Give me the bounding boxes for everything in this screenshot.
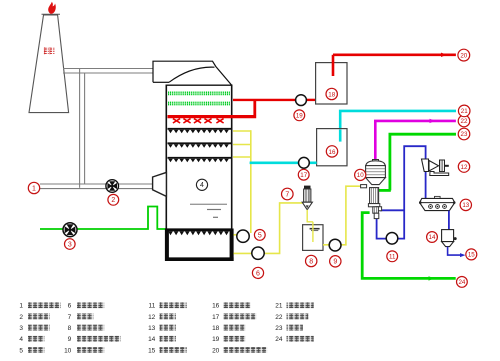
svg-text:7: 7: [68, 314, 72, 321]
legend: [19, 302, 313, 354]
svg-text:6: 6: [68, 303, 72, 310]
svg-text:3: 3: [68, 241, 72, 248]
tower outlet duct and dome: [153, 61, 232, 85]
tray layer 1: [168, 129, 232, 134]
node 8: [306, 255, 317, 266]
wash water pipe to tower: [233, 100, 316, 115]
svg-text:11: 11: [389, 254, 396, 261]
svg-text:10: 10: [64, 347, 72, 354]
fan 2: [106, 180, 119, 193]
steam arrow 22: [430, 119, 436, 123]
absorbent tank 16: [317, 129, 347, 166]
node 5: [254, 230, 265, 241]
product outlet pipe: [448, 247, 463, 256]
node 18: [326, 88, 337, 99]
node 16: [326, 146, 337, 157]
svg-text:24: 24: [458, 279, 465, 286]
svg-text:17: 17: [300, 172, 307, 179]
svg-text:2: 2: [19, 314, 23, 321]
svg-text:22: 22: [275, 314, 283, 321]
dryer 13: [419, 196, 456, 210]
node 20: [458, 49, 470, 61]
clean gas duct: [63, 69, 153, 74]
tower inlet funnel: [153, 172, 167, 196]
tank 16 dip pipe: [339, 129, 342, 141]
tank 18 dip pipe: [332, 55, 335, 76]
raw gas duct: [40, 184, 153, 189]
condensate arrow 24: [429, 276, 435, 280]
absorber tower shell: [166, 85, 233, 229]
buffer tank 8: [303, 225, 323, 251]
svg-text:17: 17: [212, 314, 220, 321]
secondary steam pipe: [375, 121, 456, 160]
product arrow 15: [460, 253, 466, 257]
pump 9: [329, 239, 341, 251]
node 12: [458, 161, 469, 172]
svg-text:1: 1: [19, 303, 23, 310]
svg-text:19: 19: [296, 113, 303, 120]
slurry tap pipes: [233, 130, 251, 235]
bottom tray: [167, 230, 232, 235]
svg-text:20: 20: [212, 347, 220, 354]
chimney: [29, 14, 69, 112]
svg-text:14: 14: [148, 336, 156, 343]
svg-text:3: 3: [19, 325, 23, 332]
absorbent feed pipe: [250, 162, 317, 165]
svg-text:23: 23: [461, 131, 468, 138]
node 17: [298, 169, 309, 180]
svg-text:4: 4: [19, 336, 23, 343]
node 24: [457, 277, 468, 288]
liquid level: [190, 204, 227, 217]
svg-text:14: 14: [429, 234, 436, 241]
filter drain pipe: [307, 210, 313, 222]
node 7: [282, 188, 294, 200]
condensate pipe: [362, 213, 456, 279]
pump 5: [237, 230, 249, 242]
node 13: [460, 199, 471, 210]
svg-text:12: 12: [461, 164, 468, 171]
svg-text:8: 8: [68, 325, 72, 332]
svg-text:7: 7: [285, 191, 289, 198]
svg-text:20: 20: [460, 52, 467, 59]
flame: [48, 2, 56, 14]
svg-text:2: 2: [111, 197, 115, 204]
chimney label text: [44, 47, 55, 54]
process water supply pipe: [333, 53, 456, 56]
svg-text:18: 18: [212, 325, 220, 332]
node 6: [252, 267, 263, 278]
slurry pipe to pump 11: [377, 146, 426, 238]
bypass duct: [80, 69, 85, 188]
svg-text:12: 12: [148, 314, 156, 321]
svg-text:15: 15: [468, 252, 475, 259]
pump 6: [252, 247, 264, 259]
node 21: [458, 105, 470, 117]
crystallizer 10: [361, 160, 386, 219]
svg-text:24: 24: [275, 336, 283, 343]
svg-text:13: 13: [148, 325, 156, 332]
node 1: [28, 182, 39, 193]
svg-text:6: 6: [256, 270, 260, 277]
main steam pipe: [379, 134, 456, 190]
svg-text:21: 21: [275, 303, 283, 310]
packing machine 14: [442, 230, 457, 247]
centrifuge 12: [422, 159, 449, 176]
node 11: [387, 251, 398, 262]
demister layer upper: [168, 92, 231, 94]
water arrow 20: [441, 53, 447, 57]
node 19: [294, 110, 305, 121]
svg-text:16: 16: [329, 149, 336, 156]
svg-text:8: 8: [309, 258, 313, 265]
node 2: [108, 194, 119, 205]
absorbent supply pipe top: [340, 111, 456, 142]
oxidation air pipe: [40, 207, 166, 230]
svg-text:18: 18: [328, 91, 335, 98]
spray nozzles: [173, 119, 224, 123]
svg-text:15: 15: [148, 347, 156, 354]
svg-text:11: 11: [149, 303, 156, 310]
tray layer 2: [168, 143, 232, 148]
node 15: [466, 249, 477, 260]
node 14: [427, 232, 438, 243]
node 9: [330, 256, 341, 267]
svg-text:23: 23: [275, 325, 283, 332]
demister layer lower: [168, 103, 231, 105]
tank 8 dip pipe: [312, 222, 314, 242]
svg-text:9: 9: [68, 336, 72, 343]
node 4: [196, 179, 207, 190]
svg-text:21: 21: [461, 108, 468, 115]
svg-text:10: 10: [357, 172, 364, 179]
spray header: [168, 115, 257, 118]
tower lower thick walls: [165, 229, 234, 262]
fan 3: [63, 223, 77, 237]
svg-text:19: 19: [212, 336, 220, 343]
svg-text:13: 13: [462, 202, 469, 209]
svg-text:1: 1: [32, 185, 36, 192]
svg-text:5: 5: [258, 232, 262, 239]
node 10: [355, 169, 366, 180]
svg-text:9: 9: [333, 259, 337, 266]
pump 17: [299, 157, 310, 168]
filter 7: [302, 186, 312, 210]
tank 8 outlet pipe: [323, 186, 361, 245]
svg-text:4: 4: [200, 182, 204, 189]
node 3: [65, 239, 76, 250]
svg-text:5: 5: [19, 347, 23, 354]
svg-text:22: 22: [461, 118, 468, 125]
gypsum discharge pipe: [234, 203, 304, 254]
node 23: [458, 128, 470, 140]
pump 11: [386, 233, 398, 245]
svg-text:16: 16: [212, 303, 220, 310]
node 22: [458, 115, 470, 127]
process water tank 18: [316, 63, 347, 104]
pipe dryer to packer: [448, 211, 450, 230]
pump 19: [296, 95, 307, 106]
tray layer 3: [168, 158, 232, 163]
